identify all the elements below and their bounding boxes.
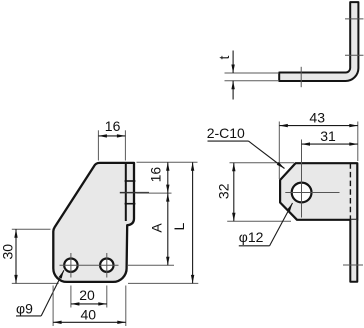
extension bottom edge right: [128, 282, 198, 284]
hole phi9 right: [100, 259, 113, 272]
dim L line: [192, 162, 194, 283]
dim 31 arrow left: [302, 142, 311, 145]
dim t extension top: [225, 72, 280, 74]
dim L arrow bottom: [191, 275, 194, 284]
dim 20 line: [71, 303, 107, 305]
hole phi12: [292, 183, 312, 203]
leader phi12 arrow: [287, 202, 294, 211]
side view bend dashed line: [349, 163, 351, 220]
dim 40 line: [53, 321, 126, 323]
extension flange hole center right: [137, 192, 172, 194]
dim A line: [167, 193, 169, 265]
dim 40 arrow left: [53, 321, 62, 324]
dim 43 arrow right: [349, 124, 358, 127]
leader 2-C10 underline: [208, 140, 249, 142]
dim 40 arrow right: [117, 321, 126, 324]
dim 43 arrow left: [279, 124, 288, 127]
extension bottom hole center right: [128, 264, 174, 266]
svg-text:φ9: φ9: [16, 300, 33, 316]
dim A arrow top: [166, 193, 169, 202]
dim 32 extension bottom: [227, 220, 291, 222]
svg-text:L: L: [171, 222, 187, 230]
front view flange hole top tick: [125, 180, 136, 182]
dim 30 extension top: [12, 228, 51, 230]
top view hole center tick upper: [345, 18, 364, 20]
dim 20 arrow right: [98, 302, 107, 305]
dim 43 extension left: [278, 122, 280, 180]
dim 32 extension top: [230, 162, 295, 164]
center mark vertical left hole: [70, 253, 72, 278]
leader 2-C10 arrow: [277, 162, 286, 170]
hole phi9 left: [64, 259, 77, 272]
front view bend line: [125, 163, 127, 221]
side view plate: [280, 163, 357, 220]
svg-text:t: t: [216, 55, 232, 59]
dim 20 extension right: [106, 286, 108, 308]
dim 16 top extension right: [124, 130, 126, 160]
dim 16 right arrow bottom: [166, 185, 169, 194]
phi12 center line vertical: [301, 140, 303, 218]
dim 40 extension right: [125, 286, 127, 327]
svg-text:2-C10: 2-C10: [207, 125, 245, 141]
svg-text:43: 43: [309, 110, 325, 126]
leader phi9 underline: [16, 315, 41, 317]
top view hole center tick lower: [345, 54, 364, 56]
dim 16 top arrow left: [98, 134, 107, 137]
front view flange hole center line: [120, 192, 149, 194]
front view bracket body: [53, 163, 134, 282]
center line through holes: [60, 264, 119, 266]
side view front leg strip: [350, 220, 357, 282]
phi12 center line horizontal: [285, 192, 339, 194]
dim t line upper: [232, 51, 234, 74]
leader phi9 arrow: [59, 270, 66, 279]
dim 32 arrow bottom: [232, 213, 235, 222]
dim 30 line: [15, 229, 17, 283]
dim t arrow top: [231, 65, 234, 74]
top view phi12 center tick: [300, 67, 302, 87]
dim 43 extension right: [357, 122, 359, 162]
dim 20 extension left: [70, 286, 72, 308]
dim 43 line: [279, 125, 358, 127]
strip center tick: [343, 264, 363, 266]
dim 32 arrow top: [232, 163, 235, 172]
top view L profile: [279, 2, 358, 81]
dim 31 arrow right: [349, 142, 358, 145]
dim 16 top extension left: [97, 130, 99, 160]
front view flange hole bottom tick: [125, 203, 136, 205]
dim 30 arrow bottom: [14, 275, 17, 284]
svg-text:32: 32: [215, 183, 231, 199]
dim t arrow bottom: [231, 81, 234, 90]
svg-text:40: 40: [81, 306, 97, 322]
leader phi12 underline: [239, 245, 270, 247]
dim t extension bottom: [225, 80, 280, 82]
svg-text:A: A: [149, 223, 165, 233]
dim 16 right arrow top: [166, 162, 169, 171]
dim 30 extension bottom: [12, 282, 59, 284]
leader phi12 line: [270, 203, 293, 246]
svg-text:20: 20: [79, 287, 95, 303]
svg-text:31: 31: [320, 128, 336, 144]
center mark vertical right hole: [106, 253, 108, 278]
svg-text:φ12: φ12: [239, 229, 264, 245]
dim A arrow bottom: [166, 257, 169, 266]
dim 16 top line: [98, 135, 125, 137]
svg-text:16: 16: [147, 167, 163, 183]
dim L arrow top: [191, 162, 194, 171]
dim 31 line: [302, 143, 358, 145]
dim 32 line: [233, 163, 235, 221]
svg-text:16: 16: [105, 118, 121, 134]
dim 16 top arrow right: [117, 134, 126, 137]
svg-text:30: 30: [0, 244, 16, 260]
extension top edge right: [137, 161, 198, 163]
dim 20 arrow left: [71, 302, 80, 305]
dim 30 arrow top: [14, 229, 17, 238]
leader phi9 line: [41, 270, 64, 316]
dim t line lower: [232, 81, 234, 100]
dim 40 extension left: [52, 286, 54, 327]
leader 2-C10 line: [249, 141, 285, 168]
dim 16 right line: [167, 162, 169, 193]
